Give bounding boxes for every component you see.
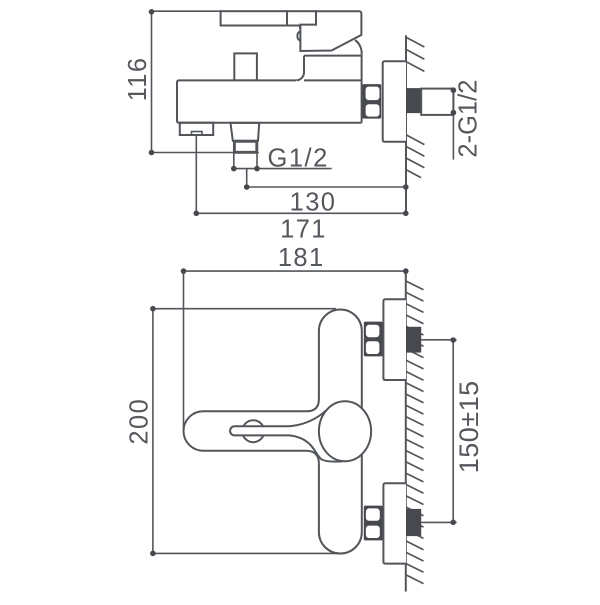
- svg-text:171: 171: [280, 216, 327, 244]
- dim 150 extension lines: [421, 340, 456, 523]
- hex nut (top view): [362, 84, 381, 119]
- lever handle (front view): [183, 399, 318, 463]
- svg-text:150±15: 150±15: [454, 380, 484, 473]
- dim 200 dots: [150, 306, 156, 312]
- lever body: [300, 11, 361, 51]
- handle screw cap circle: [242, 420, 264, 442]
- ridge lower crease: [289, 435, 343, 461]
- wall (top view): [405, 35, 407, 213]
- faucet body column (front view): [319, 309, 362, 553]
- wall (front view): [405, 271, 407, 592]
- dim 2-G1/2 dots: [451, 87, 457, 93]
- dim 171 line: [196, 212, 405, 214]
- lever pivot screw: [297, 31, 300, 41]
- wall hatching (top view): [406, 37, 424, 177]
- supply pipe stub: [421, 89, 453, 115]
- wall thread block (top view): [406, 88, 421, 113]
- handle collar (thick bar): [299, 25, 317, 29]
- wall thread block bottom (front view): [406, 509, 421, 536]
- body ledge under column: [304, 79, 362, 81]
- dim 171 dots: [194, 211, 200, 217]
- shower outlet: [231, 123, 260, 141]
- dim 130 dots: [244, 184, 250, 190]
- dim 181 dots: [181, 268, 187, 274]
- main body: [177, 80, 362, 122]
- wall hatching (front view): [406, 281, 424, 584]
- dim 181 line: [184, 271, 406, 428]
- dim 116 line: [152, 12, 259, 153]
- svg-text:130: 130: [290, 188, 337, 216]
- hex nut bottom (front view): [364, 506, 383, 541]
- handle front segment: [287, 11, 316, 25]
- spout: [180, 123, 213, 135]
- dim 150 dots: [450, 337, 456, 343]
- svg-text:2-G1/2: 2-G1/2: [455, 80, 483, 158]
- hex nut top (front view): [364, 322, 383, 357]
- dim 130 line: [247, 169, 406, 187]
- dim 2-G1/2 line: [452, 90, 454, 160]
- svg-text:181: 181: [278, 244, 325, 272]
- escutcheon flange top (front view): [383, 299, 406, 380]
- dim 116 dots: [149, 9, 155, 15]
- diverter knob: [234, 53, 257, 80]
- dim 200 line: [153, 309, 341, 554]
- cartridge dome circle: [319, 401, 371, 461]
- ridge upper crease: [289, 411, 326, 427]
- handle ridge bar: [230, 426, 289, 435]
- svg-text:116: 116: [124, 57, 152, 102]
- svg-text:G1/2: G1/2: [268, 144, 329, 172]
- cartridge column: [296, 55, 362, 123]
- dim G1/2 extension lines: [234, 154, 332, 169]
- shower outlet connector G1/2: [234, 141, 256, 152]
- escutcheon flange bottom (front view): [383, 483, 406, 563]
- handle bar top line: [152, 10, 223, 12]
- spout nose tab: [192, 132, 203, 135]
- dim G1/2 dots: [231, 166, 237, 172]
- handle rear segment: [221, 11, 287, 25]
- wall thread block top (front view): [406, 327, 421, 353]
- escutcheon flange (top view): [383, 61, 406, 141]
- spout leader line: [195, 135, 197, 213]
- neck arc into cartridge column: [355, 40, 362, 55]
- svg-text:200: 200: [126, 398, 154, 445]
